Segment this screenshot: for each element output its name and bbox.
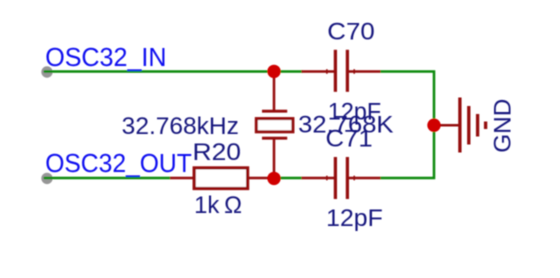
svg-text:32.768kHz: 32.768kHz (122, 113, 239, 140)
svg-text:GND: GND (489, 99, 516, 153)
svg-text:R20: R20 (193, 139, 242, 166)
svg-text:1k Ω: 1k Ω (194, 192, 242, 219)
svg-text:12pF: 12pF (326, 205, 383, 232)
svg-text:OSC32_IN: OSC32_IN (45, 44, 166, 72)
svg-text:C70: C70 (327, 19, 374, 46)
svg-text:OSC32_OUT: OSC32_OUT (45, 150, 192, 178)
svg-text:C71: C71 (326, 126, 373, 153)
